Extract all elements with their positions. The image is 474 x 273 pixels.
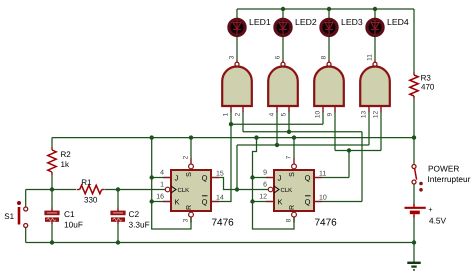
wire Q1 from pin 15 to FF2 CLK <box>219 178 268 190</box>
svg-text:4.5V: 4.5V <box>429 216 447 226</box>
resistor R2 <box>48 147 56 175</box>
wire J pin U2:A <box>152 177 163 179</box>
wire node to C1 top <box>51 190 53 208</box>
svg-text:LED4: LED4 <box>387 17 409 27</box>
svg-text:12: 12 <box>372 111 379 119</box>
svg-text:3: 3 <box>183 218 190 222</box>
svg-text:Q: Q <box>202 173 208 182</box>
capacitor C1 <box>45 208 59 225</box>
svg-text:J: J <box>278 173 282 182</box>
wire rail B down to R2 <box>51 138 53 147</box>
wire R1 to FF1 CLK <box>105 189 165 191</box>
wire battery to ground rail <box>413 218 415 243</box>
svg-text:2: 2 <box>234 112 241 116</box>
svg-text:R3: R3 <box>421 73 432 82</box>
svg-text:R1: R1 <box>81 178 92 187</box>
wire VCC to S pin U2:B <box>293 138 295 158</box>
svg-text:Q: Q <box>305 173 311 182</box>
LED LED4 <box>367 19 383 35</box>
wire Q2bar riser <box>361 132 363 202</box>
junction Q2bar track / gate pin 5 <box>287 130 291 134</box>
wire Q1bar track to gate pin 10 <box>231 123 323 125</box>
AND gate U1:B 7408 <box>268 59 298 112</box>
JK flip-flop U2:A 7476 <box>163 158 219 223</box>
junction Q2 track <box>347 148 351 152</box>
junction LED3 top <box>327 7 331 11</box>
battery BAT1 4.5V <box>405 204 426 218</box>
wire node to C2 top <box>117 190 119 208</box>
wire drop to gate pin 9 <box>334 113 336 151</box>
junction rail B / FF1 S tap <box>189 135 193 139</box>
wire drop to gate pin 10 <box>322 113 324 125</box>
LED LED3 <box>321 19 337 35</box>
svg-text:470: 470 <box>421 83 435 92</box>
svg-text:10: 10 <box>319 195 327 202</box>
junction LED2 top <box>281 7 285 11</box>
svg-text:LED2: LED2 <box>295 17 317 27</box>
wire drop to gate pin 13 <box>368 113 370 146</box>
svg-text:K: K <box>278 197 283 206</box>
junction U2:B J pin <box>250 175 254 179</box>
wire drop to gate pin 2 <box>242 113 244 132</box>
svg-text:Interrupteur: Interrupteur <box>428 174 471 184</box>
junction Q1 track / gate pin 4 <box>275 143 279 147</box>
junction U2:A K pin <box>150 199 154 203</box>
switch POWER (interrupteur) <box>412 165 423 192</box>
junction rail B / FF2 JK tap <box>254 135 258 139</box>
svg-text:LED1: LED1 <box>249 17 271 27</box>
svg-text:4: 4 <box>268 112 275 116</box>
junction node C / C1 <box>50 187 54 191</box>
wire LED1 column <box>236 9 238 59</box>
svg-text:11: 11 <box>319 171 326 178</box>
svg-text:+: + <box>428 205 433 214</box>
wire VCC tie J/K/R of U2:B <box>253 138 295 229</box>
resistor R3 <box>410 72 418 99</box>
svg-text:POWER: POWER <box>428 163 459 173</box>
wire ground rail <box>26 242 414 244</box>
wire K pin U2:A <box>152 201 163 203</box>
svg-text:1k: 1k <box>61 160 70 169</box>
svg-text:CLK: CLK <box>281 187 293 194</box>
wire VCC tie J/K/R of U2:A <box>152 138 191 229</box>
svg-text:S: S <box>186 172 193 177</box>
svg-text:1: 1 <box>222 112 229 116</box>
junction U2:A J pin <box>150 175 154 179</box>
wire Q2bar track to gate pin 2 <box>243 131 362 133</box>
svg-text:10: 10 <box>314 111 321 119</box>
push button S1 <box>17 201 28 228</box>
wire VCC top rail <box>237 8 414 10</box>
wire Q2bar from pin 10 <box>322 201 362 203</box>
svg-text:2: 2 <box>183 155 190 159</box>
junction rail B / FF2 S tap <box>292 135 296 139</box>
svg-text:13: 13 <box>360 111 367 119</box>
svg-text:330: 330 <box>84 196 98 205</box>
capacitor C2 <box>111 208 125 225</box>
wire rail B to switch <box>413 138 415 165</box>
wire top rail to R3 <box>413 9 415 72</box>
wire Q1 track to gate pin 13 <box>237 144 369 146</box>
svg-text:4: 4 <box>160 169 164 176</box>
svg-text:J: J <box>175 173 179 182</box>
svg-text:15: 15 <box>216 171 224 178</box>
wire Q1 riser <box>236 145 238 190</box>
AND gate U1:C 7408 <box>314 59 344 112</box>
resistor R1 <box>77 185 105 193</box>
svg-text:12: 12 <box>259 193 267 200</box>
wire LED4 column <box>374 9 376 59</box>
svg-text:5: 5 <box>280 112 287 116</box>
svg-text:3: 3 <box>228 55 235 59</box>
wire drop to gate pin 5 <box>288 113 290 132</box>
junction battery / ground rail <box>412 240 416 244</box>
AND gate U1:D 7408 <box>360 59 390 112</box>
wire VCC to S pin U2:A <box>190 138 192 158</box>
svg-text:R: R <box>289 205 296 210</box>
junction C2 / ground rail <box>116 240 120 244</box>
svg-text:14: 14 <box>216 195 224 202</box>
svg-text:R2: R2 <box>61 150 72 159</box>
svg-text:CLK: CLK <box>178 187 190 194</box>
svg-text:C2: C2 <box>129 209 140 219</box>
junction rail B / FF1 JK tap <box>150 135 154 139</box>
svg-text:10uF: 10uF <box>64 219 83 229</box>
wire R3 to VCC rail B <box>413 99 415 138</box>
JK flip-flop U2:B 7476 <box>266 158 322 223</box>
svg-text:16: 16 <box>156 193 164 200</box>
wire Q1bar from pin 14 <box>219 201 231 203</box>
junction LED4 top <box>373 7 377 11</box>
AND gate U1:A 7408 <box>222 59 252 112</box>
svg-text:R: R <box>186 205 193 210</box>
svg-text:9: 9 <box>326 112 333 116</box>
svg-text:6: 6 <box>263 181 267 188</box>
svg-text:8: 8 <box>320 55 327 59</box>
LED LED1 <box>229 19 245 35</box>
junction C1 / ground rail <box>50 240 54 244</box>
svg-text:11: 11 <box>366 54 373 61</box>
wire drop to gate pin 4 <box>276 113 278 146</box>
junction Q1bar track tap <box>229 122 233 126</box>
wire node C down to S1 <box>25 190 27 208</box>
svg-text:Q: Q <box>305 197 311 206</box>
svg-text:K: K <box>175 197 180 206</box>
LED LED2 <box>275 19 291 35</box>
wire J pin U2:B <box>253 177 267 179</box>
svg-text:S1: S1 <box>4 212 14 221</box>
wire LED3 column <box>328 9 330 59</box>
svg-text:6: 6 <box>274 55 281 59</box>
wire C1 to ground rail <box>51 224 53 243</box>
svg-text:8: 8 <box>286 218 293 222</box>
wire Q2 track pin9 to pin12 <box>335 150 381 152</box>
svg-text:7: 7 <box>286 155 293 159</box>
wire Q1bar riser to gate pin 1 <box>230 113 232 203</box>
junction node C2 top <box>116 187 120 191</box>
wire R2 to node C <box>51 175 53 190</box>
wire Q2 from pin 11 <box>322 177 349 179</box>
svg-text:7476: 7476 <box>315 218 338 229</box>
wire to ground <box>413 243 415 263</box>
svg-text:7476: 7476 <box>212 218 235 229</box>
wire VCC rail B <box>52 137 414 139</box>
wire K pin U2:B <box>253 201 267 203</box>
svg-text:C1: C1 <box>64 209 75 219</box>
wire LED2 column <box>282 9 284 59</box>
wire switch to battery <box>413 184 415 204</box>
wire Q2 riser <box>348 151 350 178</box>
svg-text:S: S <box>289 172 296 177</box>
ground <box>407 263 420 270</box>
wire S1 to ground rail <box>25 228 27 243</box>
junction rail B / R3 / switch <box>412 135 416 139</box>
junction Q1 riser / CLK2 wire <box>235 187 239 191</box>
wire C2 to ground rail <box>117 224 119 243</box>
wire S1 to R1 <box>26 189 76 191</box>
svg-text:Q: Q <box>202 197 208 206</box>
svg-text:3.3uF: 3.3uF <box>129 219 150 229</box>
svg-text:LED3: LED3 <box>341 17 363 27</box>
junction U2:B K pin <box>250 199 254 203</box>
svg-text:1: 1 <box>160 181 164 188</box>
wire drop to gate pin 12 <box>380 113 382 151</box>
svg-text:9: 9 <box>263 169 267 176</box>
